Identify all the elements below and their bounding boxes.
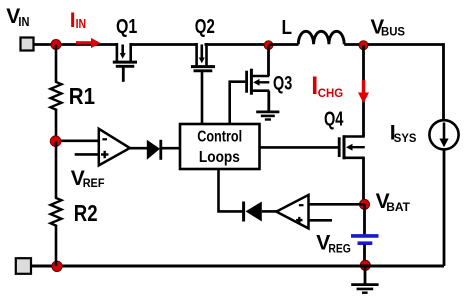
wire: op-amp U1 output to diode D1 bbox=[130, 147, 148, 150]
node: divider tap junction dot bbox=[50, 136, 61, 147]
svg-text:BUS: BUS bbox=[381, 25, 405, 39]
transistor Q1 bbox=[113, 43, 137, 82]
ground under battery bbox=[351, 285, 378, 293]
svg-text:Q2: Q2 bbox=[195, 16, 215, 38]
wire: diode D2 to op-amp U2 output bbox=[262, 210, 278, 213]
node: battery bottom junction dot bbox=[360, 260, 370, 270]
svg-text:SYS: SYS bbox=[394, 131, 417, 145]
svg-text:R1: R1 bbox=[69, 83, 95, 109]
wire: Q2 to switch node bbox=[205, 43, 269, 46]
diode D2 bbox=[244, 202, 262, 222]
transistor Q2 bbox=[191, 43, 215, 71]
node: VBUS junction dot bbox=[359, 41, 368, 50]
wire: VBUS to ISYS branch top right corner bbox=[368, 45, 444, 121]
svg-text:IN: IN bbox=[76, 17, 87, 31]
op-amp U1 bbox=[99, 129, 130, 166]
svg-text:IN: IN bbox=[18, 15, 29, 29]
control loops block bbox=[180, 124, 260, 169]
current source ISYS bbox=[429, 120, 458, 149]
svg-text:Q4: Q4 bbox=[324, 109, 344, 131]
transistor Q4 bbox=[339, 135, 365, 159]
wire: input terminal to VIN node bbox=[34, 43, 57, 46]
wire: control loops to Q4 gate bbox=[260, 146, 339, 149]
current arrow ICHG bbox=[358, 80, 369, 103]
wire: VREF stub to op-amp U1 bbox=[75, 153, 99, 156]
node: VIN junction dot bbox=[51, 40, 61, 50]
wire: battery to bottom rail bbox=[363, 245, 366, 267]
transistor Q3 bbox=[247, 69, 270, 95]
svg-text:Control: Control bbox=[197, 129, 242, 146]
wire: Q2 gate to control loops bbox=[201, 72, 204, 124]
wire: diode D1 to control loops bbox=[161, 147, 180, 150]
diode D1 bbox=[147, 140, 161, 160]
wire: top rail VIN node to Q1 bbox=[56, 43, 118, 46]
wire: ISYS to bottom rail bbox=[443, 149, 446, 266]
wire: Q4 to VBAT node bbox=[362, 158, 365, 205]
input terminal square bbox=[21, 38, 34, 51]
svg-text:L: L bbox=[282, 17, 293, 39]
svg-text:Q1: Q1 bbox=[116, 16, 137, 38]
svg-text:Q3: Q3 bbox=[273, 74, 292, 95]
wire: R2 to bottom rail bbox=[55, 225, 58, 266]
svg-text:CHG: CHG bbox=[318, 86, 343, 100]
svg-text:REG: REG bbox=[328, 242, 351, 256]
wire: VBUS node down to Q4 bbox=[362, 45, 365, 136]
op-amp U2 bbox=[276, 195, 308, 229]
inductor L bbox=[298, 31, 344, 44]
wire: control loops to Q3 gate bbox=[230, 82, 246, 124]
wire: Q3 to ground bbox=[267, 91, 270, 112]
wire: switch node down to Q3 bbox=[267, 45, 270, 76]
resistor R2 bbox=[51, 196, 62, 227]
battery cell bbox=[351, 236, 379, 243]
wire: VBAT node to battery bbox=[363, 204, 366, 234]
node: switch node junction dot bbox=[264, 41, 273, 50]
wire: Q1 to Q2 bbox=[130, 43, 198, 46]
wire: R1 to divider tap node bbox=[55, 109, 58, 141]
resistor R1 bbox=[51, 80, 62, 111]
wire: switch node to inductor bbox=[269, 43, 299, 46]
wire: R divider tap to op-amp U1 bbox=[56, 140, 99, 143]
svg-text:R2: R2 bbox=[74, 200, 98, 226]
wire: junction to ground bbox=[364, 265, 367, 284]
wire: VIN node down to R1 bbox=[55, 45, 58, 82]
node: VBAT junction dot bbox=[360, 199, 370, 209]
wire: control loops to diode D2 bbox=[219, 169, 243, 211]
svg-text:REF: REF bbox=[83, 176, 105, 190]
wire: VBAT node to op-amp U2 input bbox=[309, 203, 365, 206]
current arrow IIN bbox=[76, 38, 101, 48]
ground under Q3 bbox=[256, 112, 279, 120]
wire: tap node down to R2 bbox=[55, 141, 58, 197]
bottom rail wire bbox=[31, 265, 444, 268]
ground terminal square bbox=[16, 258, 31, 274]
svg-text:Loops: Loops bbox=[199, 149, 240, 166]
wire: VREG stub to op-amp U2 input bbox=[309, 219, 333, 222]
wire: inductor to VBUS node bbox=[344, 43, 363, 46]
node: bottom left junction dot bbox=[52, 261, 62, 271]
svg-text:BAT: BAT bbox=[386, 200, 410, 214]
